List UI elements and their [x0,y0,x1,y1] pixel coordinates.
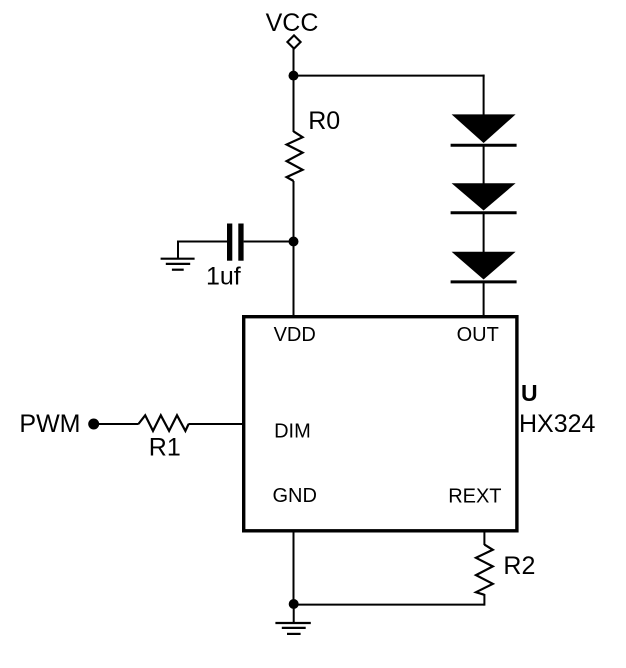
wire C1 to node [244,241,294,243]
resistor R2 [476,545,493,595]
svg-text:PWM: PWM [19,410,80,438]
wire GND pin to ground node [293,531,295,605]
IC U HX324 body [244,317,517,531]
terminal PWM [88,419,99,430]
ground (capacitor) [161,241,195,270]
svg-text:1uf: 1uf [206,263,241,291]
node ground junction [289,599,299,609]
wire R1 to DIM pin [188,423,242,425]
svg-text:HX324: HX324 [519,410,596,438]
svg-text:REXT: REXT [448,486,501,508]
resistor R0 [287,131,303,181]
power symbol VCC (diamond) [287,35,300,48]
svg-text:VDD: VDD [274,324,316,346]
wire PWM to R1 [94,423,139,425]
wire D2 to D3 [483,213,485,253]
capacitor C1 [227,224,244,261]
node junction at VDD rail [289,237,299,247]
svg-text:R0: R0 [308,107,340,135]
LED D2 [451,183,517,213]
svg-text:U: U [521,380,538,406]
wire REXT pin to R2 [483,531,485,546]
LED D3 [451,252,517,282]
svg-text:OUT: OUT [457,324,499,346]
wire D3 to OUT pin [483,282,485,316]
svg-text:VCC: VCC [266,9,319,37]
node junction at VCC rail [289,71,299,81]
svg-text:R2: R2 [503,552,535,580]
resistor R1 [138,415,188,431]
wire ground to capacitor C1 [177,241,228,243]
wire D1 to D2 [483,145,485,184]
wire node to LED column [294,75,485,77]
ground (main) [275,604,310,634]
LED D1 [451,114,517,145]
svg-text:R1: R1 [149,433,181,461]
svg-text:GND: GND [273,485,317,507]
wire down to LED D1 [483,75,485,116]
wire R2 to ground rail [483,594,485,606]
wire ground node to R2 [294,604,485,606]
wire R0 to VDD pin [293,181,295,316]
wire node to R0 [293,76,295,132]
svg-text:DIM: DIM [274,420,311,442]
wire VCC symbol to node [293,48,295,76]
